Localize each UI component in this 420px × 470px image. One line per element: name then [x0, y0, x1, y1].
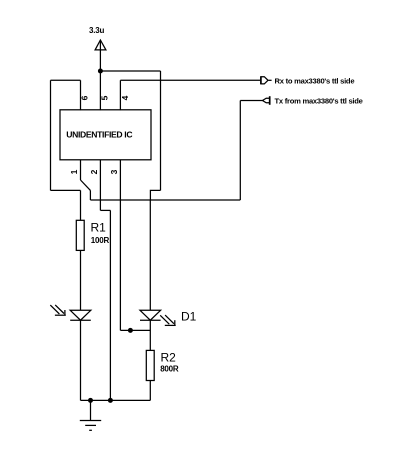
- wire Tx vertical: [239, 101, 241, 201]
- photodiode: [70, 310, 91, 320]
- svg-text:D1: D1: [181, 310, 197, 324]
- svg-text:3.3u: 3.3u: [89, 26, 105, 35]
- junction dot power node: [98, 69, 103, 74]
- wire D1 to R2: [149, 320, 151, 350]
- port Rx output: [261, 76, 272, 84]
- wire R1 to photodiode: [80, 250, 82, 310]
- wire jog to net: [150, 190, 160, 200]
- wire Tx horizontal: [240, 100, 262, 102]
- wire pin 3 to R2 node: [120, 329, 150, 331]
- LED D1 light arrows: [160, 315, 176, 325]
- svg-text:Tx from max3380's ttl side: Tx from max3380's ttl side: [275, 97, 363, 106]
- photodiode light arrows: [50, 305, 66, 315]
- port Tx input: [263, 96, 270, 105]
- wire left loop to R1: [51, 189, 81, 191]
- wire net horizontal pin1/Tx: [90, 199, 240, 201]
- junction dot pin2 net: [108, 398, 113, 403]
- wire Rx: [120, 79, 260, 81]
- svg-text:5: 5: [99, 95, 109, 100]
- junction dot ground stem: [88, 398, 93, 403]
- svg-text:1: 1: [69, 169, 79, 174]
- wire pin 1 drop: [89, 190, 91, 200]
- wire pin 2 down: [109, 210, 111, 400]
- svg-text:2: 2: [89, 169, 99, 174]
- wire D1 anode drop: [149, 200, 151, 310]
- wire pin 6 drop: [80, 80, 82, 110]
- wire R1 top feed: [80, 190, 82, 220]
- wire ground rail: [81, 399, 151, 401]
- svg-text:3: 3: [109, 169, 119, 174]
- svg-text:UNIDENTIFIED IC: UNIDENTIFIED IC: [66, 130, 132, 140]
- wire power to pin 5: [99, 71, 101, 110]
- svg-text:R2: R2: [161, 351, 177, 365]
- wire pin 4 up: [119, 80, 121, 110]
- wire right drop: [160, 71, 162, 190]
- wire left loop down: [50, 80, 52, 190]
- wire power rail to right: [100, 70, 160, 72]
- LED D1: [140, 310, 161, 320]
- svg-text:R1: R1: [91, 221, 107, 235]
- wire photodiode to ground rail: [80, 320, 82, 400]
- ground: [80, 400, 101, 430]
- svg-text:800R: 800R: [160, 365, 179, 374]
- wire pin 1 diagonal: [81, 180, 91, 190]
- wire pin 3 vertical: [119, 160, 121, 331]
- svg-text:Rx to max3380's ttl side: Rx to max3380's ttl side: [275, 76, 355, 85]
- resistor R1: [76, 220, 84, 250]
- svg-text:100R: 100R: [91, 236, 110, 245]
- wire pin 2 vertical: [99, 160, 101, 211]
- svg-text:6: 6: [79, 95, 89, 100]
- svg-text:4: 4: [120, 95, 130, 100]
- power symbol (3.3u rail): [95, 40, 106, 71]
- wire pin 1 vertical: [80, 160, 82, 180]
- junction dot mid node: [128, 328, 133, 333]
- resistor R2: [146, 350, 154, 380]
- IC U1 body: [60, 110, 151, 160]
- wire pin 6 top rail: [51, 79, 81, 81]
- wire pin 2 jog: [100, 209, 110, 211]
- wire R2 down: [149, 381, 151, 401]
